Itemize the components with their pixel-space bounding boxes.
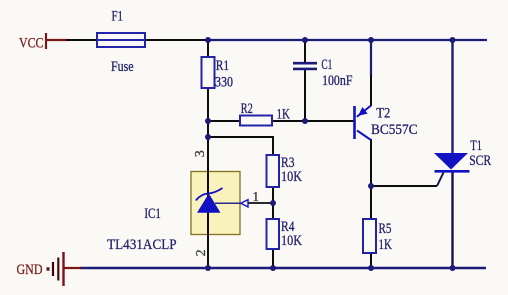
wire R5 top pin <box>370 186 372 219</box>
svg-text:IC1: IC1 <box>144 206 161 222</box>
svg-text:10K: 10K <box>281 233 302 249</box>
resistor R4 <box>267 219 280 249</box>
svg-text:TL431ACLP: TL431ACLP <box>107 237 177 253</box>
svg-text:R5: R5 <box>379 221 392 237</box>
svg-text:SCR: SCR <box>469 153 491 169</box>
wire SCR cathode vertical <box>451 172 453 268</box>
wire T2 emitter vertical (navy) <box>370 40 372 76</box>
ground GND <box>17 252 64 286</box>
wire R5 bottom pin <box>370 253 372 268</box>
wire GND pin (maroon) <box>64 267 81 269</box>
wire IC1 ref pin 1 <box>248 202 273 204</box>
wire R3 bottom to R4 top <box>272 187 274 219</box>
wire bottom rail (navy) <box>80 267 486 270</box>
wire C1 stem upper <box>304 40 306 63</box>
svg-text:R2: R2 <box>241 101 253 117</box>
capacitor C1 plates <box>293 63 317 69</box>
svg-text:C1: C1 <box>321 57 332 73</box>
svg-text:10K: 10K <box>281 169 302 185</box>
svg-text:3: 3 <box>193 150 208 157</box>
svg-text:BC557C: BC557C <box>371 122 418 138</box>
svg-text:Fuse: Fuse <box>111 59 134 75</box>
svg-text:1K: 1K <box>379 237 393 253</box>
wire C1 stem lower <box>304 70 306 121</box>
transistor Q T2 BC557C <box>355 106 372 141</box>
svg-text:1: 1 <box>252 190 259 205</box>
wire vertical R1/IC1 chain <box>207 40 209 268</box>
wire L-shape node to R3 top <box>208 137 273 155</box>
power port VCC <box>19 33 46 52</box>
resistor R2 <box>240 116 272 126</box>
wire gate row <box>371 185 437 187</box>
svg-text:T1: T1 <box>470 138 482 154</box>
svg-text:2: 2 <box>194 249 209 256</box>
fuse F1 <box>97 33 145 47</box>
wire VCC pin (maroon) <box>46 39 67 41</box>
wire T2 collector vertical <box>370 139 372 186</box>
wire T2 emitter pin (black) <box>370 75 372 106</box>
wire top rail (navy) <box>208 39 487 41</box>
op-amp U IC1 TL431 symbol <box>196 188 248 213</box>
node A junction dots <box>205 37 456 271</box>
thyristor T1 SCR <box>434 153 470 186</box>
wire R4 bottom <box>272 249 274 268</box>
wire VCC to fuse (black) <box>66 39 97 41</box>
svg-text:GND: GND <box>17 262 43 278</box>
resistor R3 <box>267 155 280 187</box>
svg-text:330: 330 <box>215 75 233 91</box>
resistor R1 <box>202 57 215 88</box>
wire SCR anode vertical (navy) <box>451 40 453 153</box>
IC1 body box <box>191 172 240 235</box>
wire R2 row base wire <box>208 120 354 122</box>
svg-text:100nF: 100nF <box>322 73 353 89</box>
svg-text:F1: F1 <box>112 9 124 25</box>
svg-text:1K: 1K <box>277 107 291 123</box>
wire fuse to node A (black) <box>145 39 208 41</box>
svg-text:R1: R1 <box>216 58 230 74</box>
svg-text:VCC: VCC <box>19 36 44 52</box>
resistor R5 <box>363 219 376 253</box>
svg-text:T2: T2 <box>376 105 390 121</box>
